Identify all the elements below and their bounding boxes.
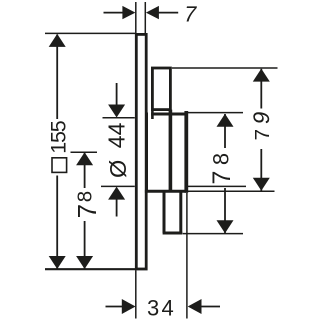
svg-text:8: 8 xyxy=(73,191,96,202)
svg-text:4: 4 xyxy=(104,122,130,135)
svg-text:7: 7 xyxy=(208,171,236,185)
svg-text:4: 4 xyxy=(104,135,130,148)
svg-text:34: 34 xyxy=(147,296,176,320)
svg-text:7: 7 xyxy=(72,204,102,218)
svg-text:7: 7 xyxy=(251,129,274,140)
svg-text:8: 8 xyxy=(208,153,233,165)
svg-text:155: 155 xyxy=(47,120,71,154)
svg-text:Ø: Ø xyxy=(105,160,131,178)
